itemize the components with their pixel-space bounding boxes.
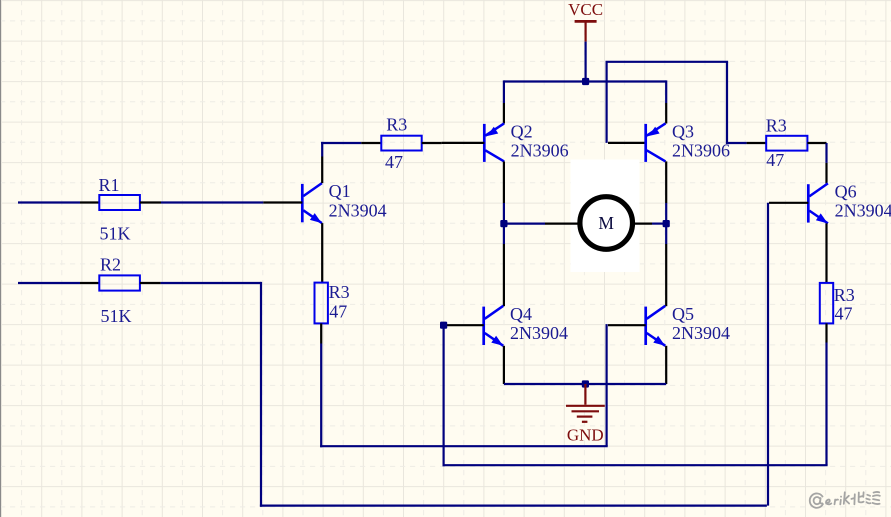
svg-text:2N3904: 2N3904	[835, 201, 891, 221]
motor M	[504, 197, 666, 250]
svg-text:Q5: Q5	[672, 304, 694, 324]
svg-text:Q6: Q6	[835, 182, 857, 202]
pin Q6 base	[769, 202, 808, 204]
wire rail to Q2 emitter	[503, 80, 505, 103]
wire emitter bus	[504, 383, 666, 385]
wire R3b to Q6 collector	[825, 143, 827, 163]
wire Q1 emitter	[321, 223, 323, 283]
wire input 1	[18, 201, 80, 203]
pin R2 right	[140, 282, 161, 284]
svg-text:R3: R3	[834, 285, 855, 305]
svg-text:51K: 51K	[100, 223, 131, 243]
svg-text:Q2: Q2	[511, 122, 533, 142]
pin R3b left	[747, 142, 767, 144]
svg-text:VCC: VCC	[568, 0, 603, 19]
svg-text:Q1: Q1	[329, 181, 351, 201]
junction GND node	[582, 380, 589, 387]
svg-text:R2: R2	[100, 255, 121, 275]
resistor R3c	[315, 283, 328, 324]
wire Q3 base loop	[605, 62, 607, 143]
pin Q5 base	[608, 324, 646, 326]
svg-text:GND: GND	[567, 425, 604, 444]
wire Q1 collector to R3	[321, 157, 323, 184]
wire Q3 collector to motor node	[665, 161, 667, 203]
pin Q1 base	[263, 201, 302, 203]
resistor R3d	[820, 283, 833, 324]
svg-text:Q4: Q4	[510, 304, 532, 324]
wire Q6 base to bottom	[767, 203, 769, 506]
wire Q6 emitter	[825, 223, 827, 283]
svg-text:2N3904: 2N3904	[329, 200, 387, 220]
motor M backing	[571, 160, 640, 273]
transistor Q5	[646, 306, 666, 346]
pin R3c bottom	[320, 323, 322, 343]
junction Q4 base	[440, 322, 447, 329]
svg-text:R3: R3	[386, 115, 407, 135]
pin Q2 base	[442, 142, 485, 144]
pin Q4 base	[447, 324, 484, 326]
watermark @erik	[810, 492, 880, 508]
wire Q5 emitter	[665, 346, 667, 384]
wire Q2 collector to motor node	[503, 161, 505, 203]
junction VCC rail	[582, 78, 589, 85]
pin Q3 base	[608, 142, 646, 144]
svg-text:51K: 51K	[101, 306, 132, 326]
wire R3d to w465	[825, 343, 827, 466]
svg-text:2N3906: 2N3906	[672, 141, 730, 161]
resistor R3b	[766, 136, 807, 151]
pin R3a left	[361, 142, 381, 144]
pin R3b right	[807, 142, 826, 144]
pin R1 right	[140, 201, 161, 203]
ground GND	[566, 384, 605, 444]
svg-text:2N3904: 2N3904	[672, 323, 730, 343]
svg-text:2N3904: 2N3904	[510, 323, 568, 343]
svg-text:47: 47	[385, 152, 403, 172]
svg-text:Q3: Q3	[672, 122, 694, 142]
power symbol VCC	[568, 0, 603, 42]
transistor Q1	[302, 183, 322, 223]
pin R3d bottom	[825, 323, 827, 342]
svg-text:M: M	[598, 213, 614, 233]
transistor Q2	[484, 123, 504, 161]
wire VCC to rail	[584, 42, 586, 82]
wire R3c to w446	[320, 344, 322, 448]
svg-text:2N3906: 2N3906	[511, 141, 569, 161]
wire Q4 emitter	[503, 346, 505, 384]
wire input 2	[18, 282, 80, 284]
svg-text:R3: R3	[329, 282, 350, 302]
pin R1 left	[80, 201, 99, 203]
svg-text:R3: R3	[766, 115, 787, 135]
pin R2 left	[80, 282, 99, 284]
pin R3a right	[422, 142, 442, 144]
wire top rail	[504, 80, 666, 82]
wire Q5 base riser	[605, 324, 607, 446]
wire R2 to bottom	[161, 282, 261, 284]
junction motor left	[500, 220, 507, 227]
resistor R2	[99, 275, 140, 290]
svg-text:47: 47	[766, 150, 784, 170]
svg-text:R1: R1	[99, 175, 120, 195]
junction motor right	[663, 220, 670, 227]
wire rail to Q3 emitter	[665, 80, 667, 103]
resistor R1	[99, 195, 140, 210]
transistor Q3	[646, 123, 666, 161]
resistor R3a	[381, 136, 421, 151]
transistor Q4	[484, 306, 504, 346]
svg-text:47: 47	[329, 301, 347, 321]
wire Q4 base to w465	[443, 325, 445, 466]
transistor Q6	[808, 183, 828, 223]
svg-text:47: 47	[835, 303, 853, 323]
wire R1 to Q1 base	[161, 201, 263, 203]
